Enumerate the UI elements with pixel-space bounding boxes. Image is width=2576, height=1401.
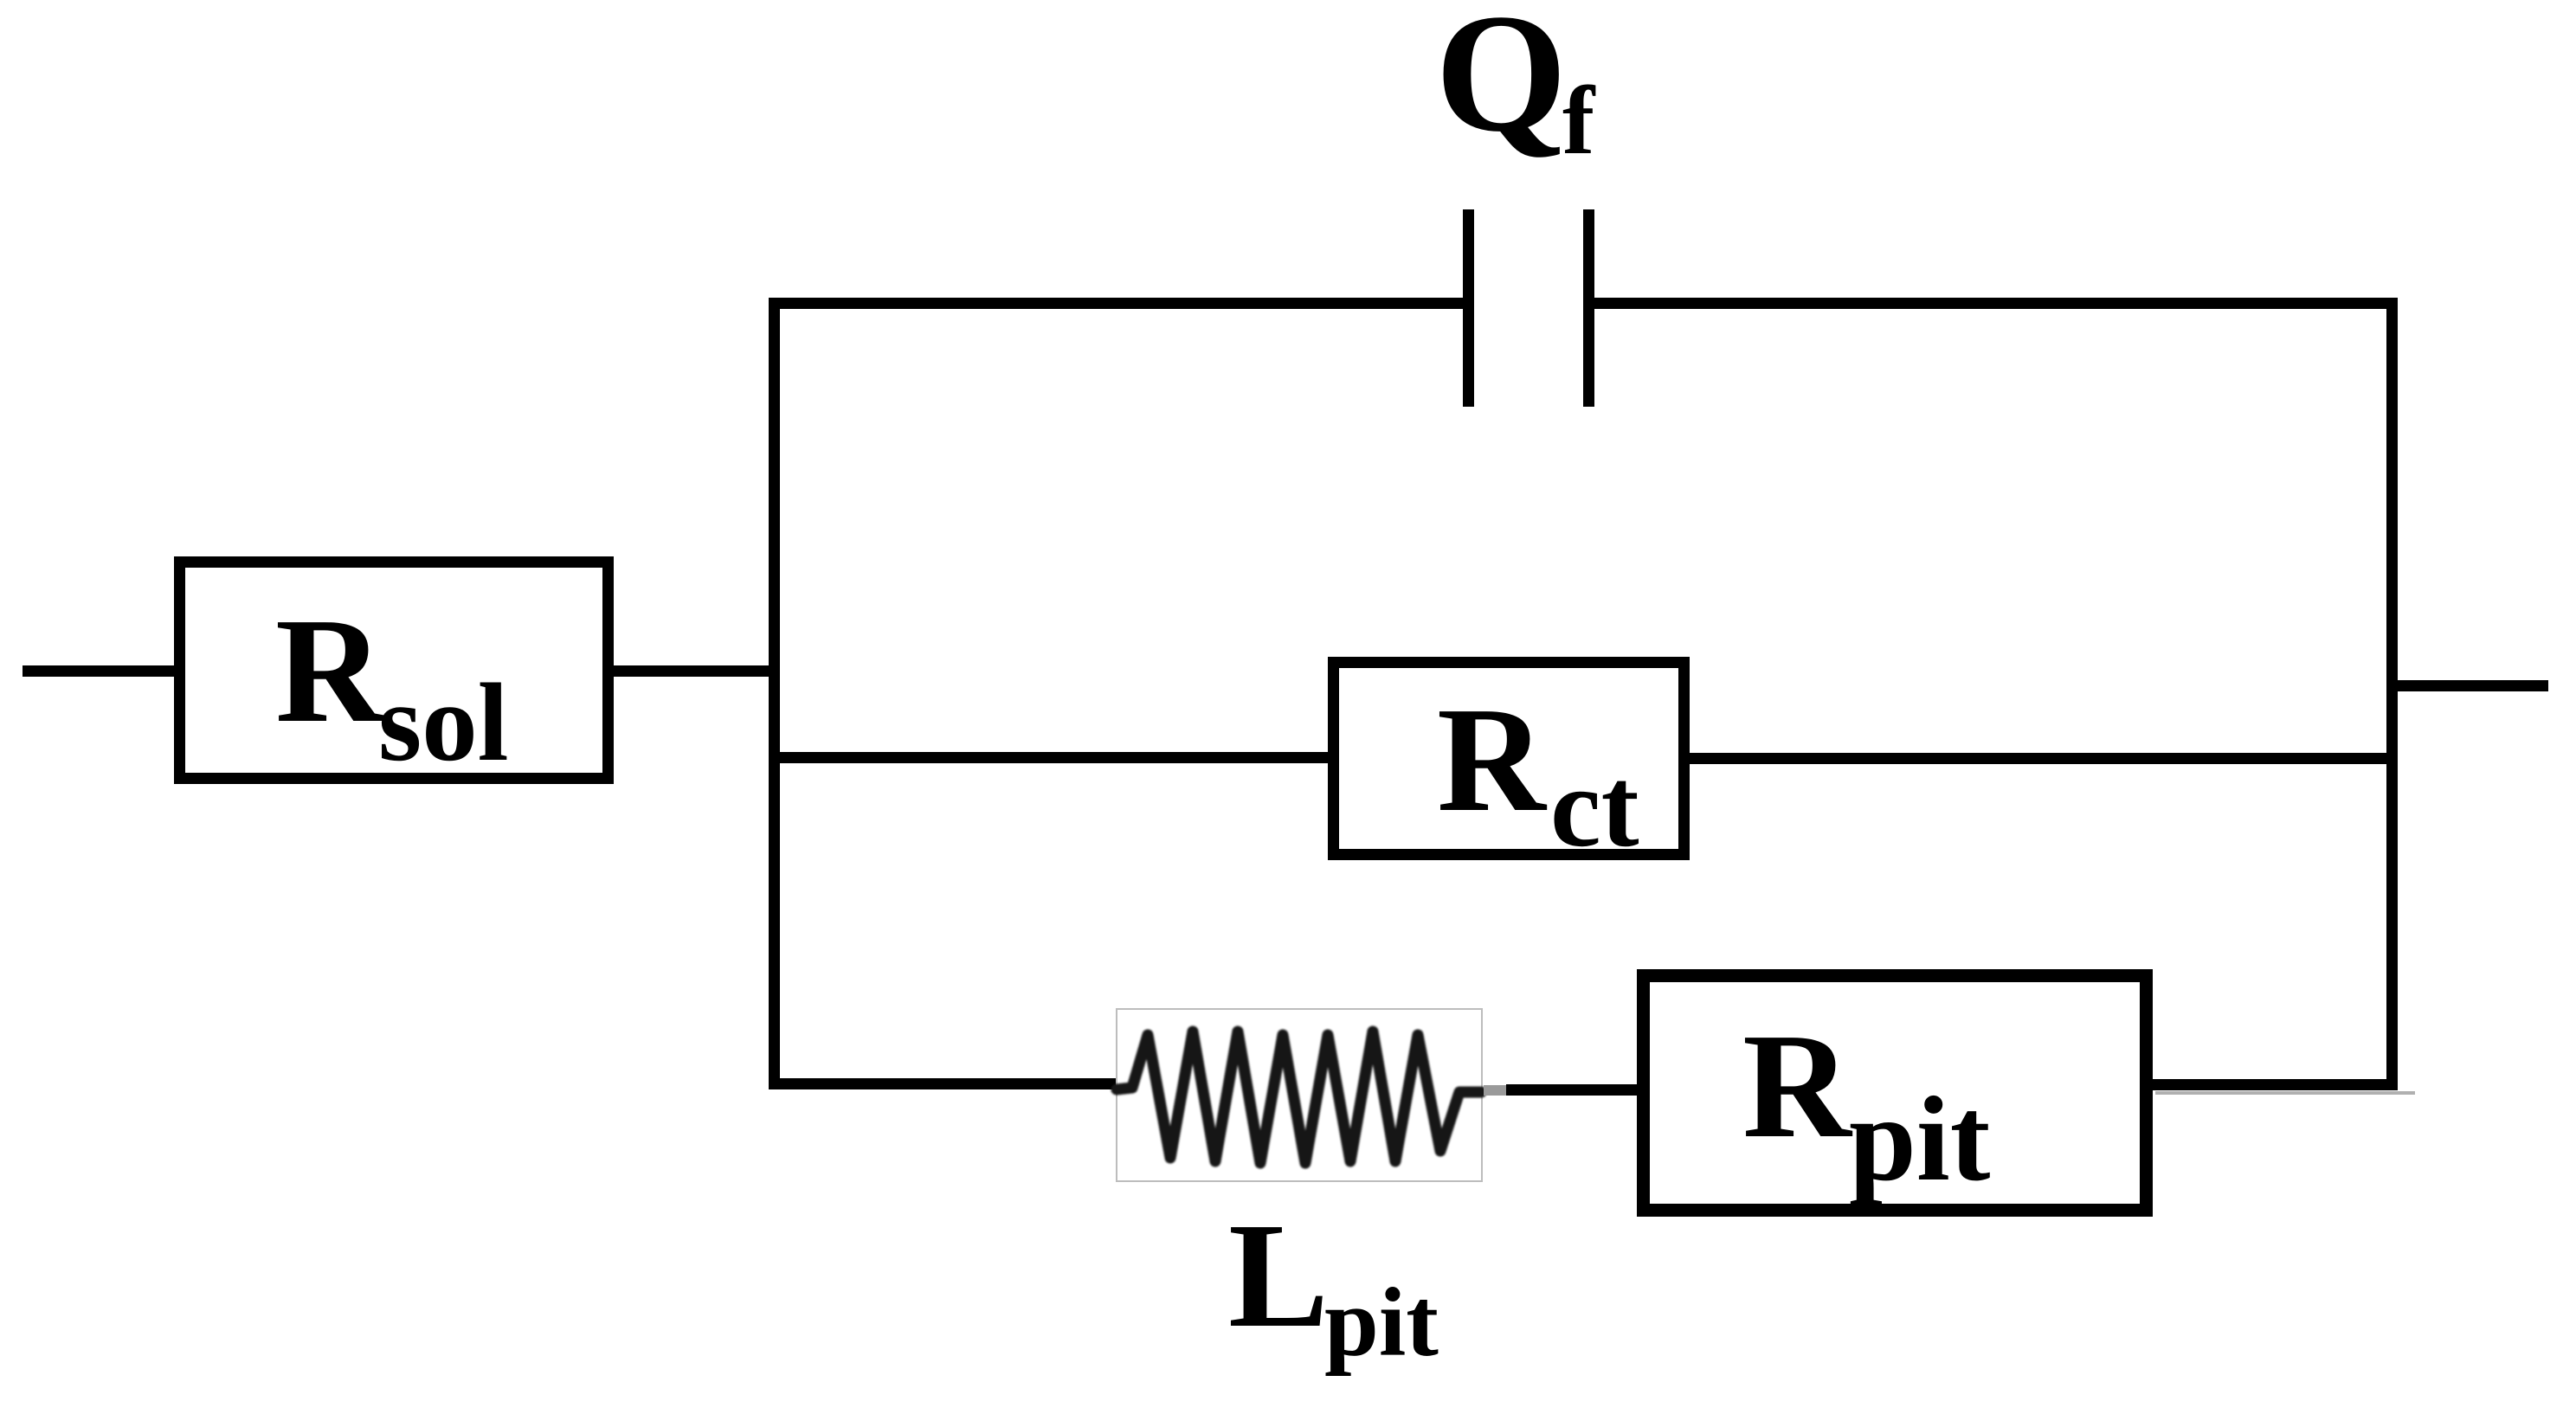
resistor R_sol (box) <box>180 562 609 779</box>
inductor L_pit (coil) <box>1117 1031 1481 1163</box>
wire: left terminal lead <box>23 665 175 677</box>
label R_ct <box>1437 676 1639 871</box>
svg-text:pit: pit <box>1849 1072 1990 1206</box>
wire: middle branch left segment <box>769 752 1328 763</box>
label R_pit <box>1742 1002 1990 1206</box>
node: right junction bus <box>2386 298 2398 1090</box>
svg-text:f: f <box>1562 67 1596 175</box>
wire: inductor to R_pit <box>1506 1084 1643 1096</box>
wire: R_pit to right junction <box>2147 1079 2398 1090</box>
capacitor Q_f (left plate) <box>1463 209 1474 407</box>
svg-text:R: R <box>275 587 386 754</box>
capacitor Q_f (right plate) <box>1583 209 1594 407</box>
wire: inductor to R_pit (gray stub at scan seam) <box>1484 1085 1508 1096</box>
svg-text:ct: ct <box>1550 743 1639 871</box>
wire: middle branch right segment <box>1684 753 2398 764</box>
svg-text:R: R <box>1742 1002 1853 1169</box>
wire: top branch right segment <box>1594 298 2398 309</box>
resistor R_pit (box) <box>1644 976 2147 1211</box>
wire: R_sol to left junction <box>608 665 780 677</box>
svg-text:Q: Q <box>1435 0 1567 167</box>
label L_pit <box>1228 1192 1439 1377</box>
svg-text:R: R <box>1437 676 1548 843</box>
label Q_f <box>1435 0 1596 175</box>
svg-text:sol: sol <box>378 660 509 784</box>
svg-text:L: L <box>1228 1192 1329 1359</box>
wire shadow under R_pit output <box>2155 1091 2415 1095</box>
svg-text:pit: pit <box>1324 1269 1439 1377</box>
node: left junction bus <box>769 298 780 1089</box>
inductor L_pit (scan frame) <box>1117 1009 1482 1181</box>
wire: top branch left segment <box>769 298 1463 309</box>
label R_sol <box>275 587 509 784</box>
resistor R_ct (box) <box>1334 663 1684 855</box>
wire: bottom branch left segment <box>769 1078 1118 1089</box>
wire: right terminal lead <box>2398 680 2548 691</box>
